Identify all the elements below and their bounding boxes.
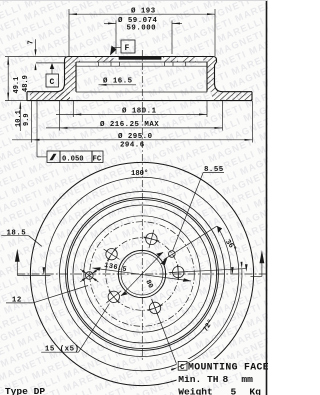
svg-text:294.6: 294.6 bbox=[120, 142, 145, 150]
svg-text:9.9: 9.9 bbox=[23, 113, 31, 126]
bore circles bbox=[118, 250, 165, 297]
roof top extension line bbox=[5, 56, 66, 58]
svg-text:7: 7 bbox=[28, 40, 36, 44]
svg-text:Min. TH: Min. TH bbox=[178, 374, 219, 385]
pin hole left on Ø136.5 bbox=[86, 272, 94, 280]
svg-text:mm: mm bbox=[241, 374, 253, 385]
svg-text:180°: 180° bbox=[131, 169, 148, 178]
hat right wall bbox=[215, 62, 223, 92]
ring bottom extension left bbox=[5, 100, 27, 102]
centerline horizontal bbox=[17, 273, 267, 275]
arrow assembly right bbox=[261, 261, 263, 276]
table mounting face bbox=[178, 361, 187, 370]
hub bore band bbox=[119, 56, 162, 59]
arc 72 deg bbox=[178, 269, 242, 368]
datum C box bbox=[46, 74, 59, 87]
hatch right ring bbox=[207, 62, 223, 92]
pitch circle Ø136.5 dash-dot bbox=[90, 222, 195, 327]
svg-text:C: C bbox=[180, 364, 185, 372]
svg-text:MOUNTING FACE: MOUNTING FACE bbox=[188, 361, 268, 372]
spoke 36 deg through right pin hole bbox=[164, 226, 217, 260]
circle Ø152 bbox=[84, 216, 200, 332]
svg-text:5: 5 bbox=[231, 386, 237, 395]
flatness feature control frame bbox=[36, 101, 38, 157]
arrow assembly left bbox=[16, 261, 18, 275]
svg-text:C: C bbox=[50, 78, 55, 87]
right border line bbox=[266, 0, 268, 395]
hatch roof segments bbox=[65, 57, 81, 63]
svg-text:Type DP: Type DP bbox=[5, 386, 46, 395]
svg-text:Kg: Kg bbox=[249, 386, 261, 395]
centerline vertical axis bbox=[141, 50, 143, 361]
dimension 49.1 / 48.9 bbox=[7, 57, 9, 101]
bolt pitch circle dash-dot bbox=[106, 238, 179, 311]
circle Ø180.1 bbox=[73, 205, 211, 343]
svg-text:Weight: Weight bbox=[178, 386, 213, 395]
svg-text:Ø 16.5: Ø 16.5 bbox=[103, 77, 133, 86]
bolt hole edges in section bbox=[98, 62, 100, 66]
svg-text:Ø 59.074: Ø 59.074 bbox=[118, 16, 158, 25]
table white mask bbox=[177, 359, 269, 395]
hatch left ring bbox=[30, 62, 76, 101]
svg-text:18.5: 18.5 bbox=[7, 230, 27, 238]
dim 136.5 bbox=[93, 268, 192, 281]
svg-text:49.1: 49.1 bbox=[13, 77, 21, 94]
circle pair Ø200 bbox=[66, 198, 219, 351]
svg-text:10.1: 10.1 bbox=[15, 110, 23, 127]
pin hole right Ø8.55 bbox=[169, 251, 176, 258]
datum F box bbox=[121, 40, 135, 53]
spoke 80 dim bbox=[121, 252, 163, 296]
outer circle Ø295 bbox=[30, 162, 253, 385]
svg-text:F: F bbox=[125, 44, 130, 53]
watermark fragments over table bbox=[183, 351, 263, 395]
circle Ø216.25 bbox=[60, 192, 225, 357]
svg-text:48.9: 48.9 bbox=[22, 75, 30, 92]
svg-text:8.55: 8.55 bbox=[204, 166, 224, 174]
friction ring outline bbox=[27, 91, 57, 93]
dimension 10.1 / 9.9 bbox=[19, 103, 21, 131]
svg-text:8: 8 bbox=[223, 374, 229, 385]
arc 36 deg bbox=[217, 226, 231, 274]
spoke through hole at -3 deg bbox=[170, 269, 246, 273]
bolt holes Ø15 x5 bbox=[169, 264, 188, 280]
top border line bbox=[0, 0, 268, 2]
hat flange roof bbox=[65, 57, 217, 65]
svg-text:59.000: 59.000 bbox=[127, 25, 157, 33]
spoke through hole at 69 deg bbox=[152, 299, 180, 372]
ring edges behind hat bbox=[76, 91, 207, 93]
circle Ø258 bbox=[45, 177, 239, 371]
svg-text:0.050: 0.050 bbox=[62, 155, 84, 163]
hat left wall bbox=[57, 63, 65, 92]
svg-text:FC: FC bbox=[93, 155, 102, 163]
